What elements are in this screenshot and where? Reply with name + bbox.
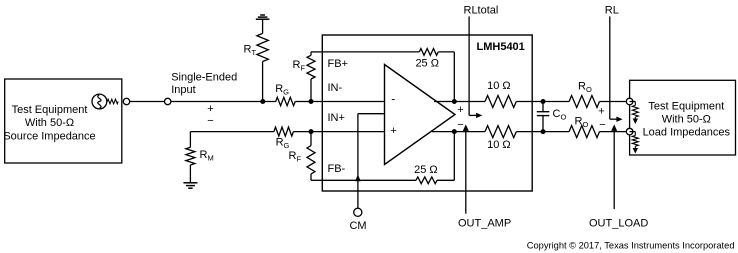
wire RF bottom stem [310, 132, 312, 146]
label 10-ohm bottom [487, 139, 511, 151]
pin label IN- [328, 82, 343, 94]
label 10-ohm top [487, 80, 511, 92]
connector J2 [165, 98, 171, 104]
resistor RG bottom [274, 127, 294, 136]
op-amp U1 (LMH5401 triangle) [385, 65, 456, 165]
svg-text:With 50-Ω: With 50-Ω [25, 117, 74, 129]
load equipment box [630, 80, 736, 155]
polarity + load [598, 105, 604, 117]
svg-text:10 Ω: 10 Ω [487, 139, 511, 151]
wire FB+ run right [438, 52, 454, 102]
wire FB- run left [322, 179, 416, 181]
wire RG2 to RF2 junction [293, 131, 311, 133]
svg-text:LMH5401: LMH5401 [477, 41, 525, 53]
wire IN+ into amp [311, 131, 385, 133]
svg-text:OUT_AMP: OUT_AMP [458, 217, 511, 229]
svg-text:FB+: FB+ [328, 58, 348, 70]
svg-text:25 Ω: 25 Ω [415, 58, 439, 70]
label OUT_LOAD [589, 217, 648, 229]
svg-text:RLtotal: RLtotal [464, 4, 499, 16]
label RG top [275, 83, 289, 97]
svg-text:+: + [457, 104, 463, 116]
label RF top [293, 59, 306, 73]
node CO bottom [541, 129, 546, 134]
svg-text:+: + [390, 125, 396, 137]
wire J2 to RT junction [171, 101, 275, 103]
label RO top [578, 80, 592, 94]
node CO top [541, 99, 546, 104]
pin label FB+ [328, 58, 348, 70]
node RF/IN- junction [309, 99, 314, 104]
pin label IN+ [328, 112, 345, 124]
wire out+ from amp [434, 101, 485, 103]
label RO bottom [575, 115, 589, 128]
wire J1-J2 [130, 101, 165, 103]
svg-text:With 50-Ω: With 50-Ω [662, 113, 711, 125]
node FB-/OUT- junction [452, 129, 457, 134]
polarity + input [207, 103, 213, 115]
label CO [553, 108, 567, 122]
label 25-ohm bottom [414, 164, 438, 176]
load equipment label [643, 101, 731, 139]
resistor RF bottom [307, 146, 315, 174]
ground GND2 (top, inverted) [256, 15, 270, 19]
node RF/IN+ junction [309, 129, 314, 134]
svg-text:Test Equipment: Test Equipment [12, 104, 88, 116]
label Single-Ended Input [171, 72, 237, 97]
wire RM stem bottom [189, 165, 191, 183]
resistor 10-ohm bottom [485, 126, 516, 138]
RL arrowhead [616, 117, 622, 122]
capacitor CO [537, 102, 550, 132]
connector J3 [626, 98, 633, 105]
wire RT stem bottom [262, 62, 264, 102]
resistor RO top [569, 96, 599, 108]
wire OUT_AMP [465, 131, 467, 214]
wire RT stem top [262, 19, 264, 33]
svg-text:IN-: IN- [328, 82, 343, 94]
svg-text:Input: Input [171, 84, 195, 96]
resistor RT [257, 33, 268, 61]
connector J1 [123, 98, 129, 104]
polarity - load [599, 119, 605, 131]
label RT [244, 44, 257, 58]
label RG bottom [276, 137, 290, 151]
OUT_AMP arrowhead [463, 124, 469, 130]
svg-text:−: − [207, 115, 213, 127]
CM terminal [354, 208, 362, 216]
wire RLtotal [469, 16, 477, 115]
op-amp out- mark [457, 119, 463, 131]
label RL [605, 4, 619, 16]
RLtotal arrowhead [476, 113, 482, 118]
wire CO to RO top [543, 101, 569, 103]
op-amp out+ mark [457, 104, 463, 116]
load ground arrow bottom [633, 148, 638, 154]
copyright notice [527, 241, 735, 251]
OUT_LOAD arrowhead [611, 124, 617, 130]
svg-text:+: + [598, 105, 604, 117]
svg-text:IN+: IN+ [328, 112, 345, 124]
label LMH5401 [477, 41, 525, 53]
load ground arrow top [633, 119, 638, 125]
label RLtotal [464, 4, 499, 16]
polarity - input [207, 115, 213, 127]
svg-text:25 Ω: 25 Ω [414, 164, 438, 176]
svg-text:FB-: FB- [328, 163, 346, 175]
resistor RG top [276, 97, 296, 105]
wire out- from amp [432, 131, 485, 133]
wire CM vertical [357, 114, 359, 209]
svg-text:Copyright © 2017, Texas Instru: Copyright © 2017, Texas Instruments Inco… [527, 241, 735, 251]
svg-text:10 Ω: 10 Ω [487, 80, 511, 92]
svg-text:Load Impedances: Load Impedances [643, 127, 731, 139]
wire out+ to CO [516, 101, 543, 103]
wire RO top to load [600, 101, 626, 103]
svg-text:RL: RL [605, 4, 619, 16]
resistor RF top [307, 55, 315, 79]
label RM [200, 149, 214, 163]
svg-text:+: + [207, 103, 213, 115]
AC source V1 [92, 94, 107, 109]
wire RM stem top [189, 132, 191, 148]
CM arrowhead [355, 175, 361, 182]
svg-text:CM: CM [349, 220, 366, 232]
svg-text:Source Impedance: Source Impedance [3, 130, 95, 142]
wire IN- into amp [311, 101, 385, 103]
resistor 25-ohm top [419, 49, 438, 56]
label OUT_AMP [458, 217, 511, 229]
wire FB+ run left [322, 51, 419, 53]
source equipment label [3, 104, 95, 142]
label CM [349, 220, 366, 232]
wire minus input [190, 131, 274, 133]
wire CM to amp [358, 113, 385, 115]
svg-text:−: − [599, 119, 605, 131]
wire OUT_LOAD [613, 131, 615, 210]
resistor RO bottom [569, 126, 599, 138]
svg-text:−: − [457, 119, 463, 131]
resistor 25-ohm bottom [416, 177, 437, 184]
label 25-ohm top [415, 58, 439, 70]
label RF bottom [289, 150, 302, 164]
wire out- to CO [516, 131, 543, 133]
wire RO bottom to load [600, 131, 626, 133]
load resistor top [630, 102, 639, 120]
node RT/IN- junction [260, 99, 265, 104]
resistor 10-ohm top [485, 96, 516, 108]
wire RF top to FB+ pin [311, 52, 322, 55]
LMH5401 package box [322, 35, 532, 191]
node FB+/OUT+ junction [452, 99, 457, 104]
load resistor bottom [630, 132, 639, 149]
ground GND1 [183, 183, 197, 188]
wire RL [610, 16, 618, 119]
op-amp + input mark [390, 125, 396, 137]
connector J4 [626, 128, 633, 135]
source equipment box [5, 79, 122, 163]
op-amp - input mark [391, 91, 395, 105]
wire RF bottom to FB- pin [311, 174, 322, 180]
wire RG to RF junction [295, 101, 311, 103]
wire CO to RO bottom [543, 131, 569, 133]
source 50-ohm resistor [107, 99, 118, 104]
pin label FB- [328, 163, 346, 175]
svg-text:OUT_LOAD: OUT_LOAD [589, 217, 648, 229]
resistor RM [186, 147, 195, 165]
svg-text:Single-Ended: Single-Ended [171, 72, 237, 84]
wire FB- run right [437, 132, 454, 181]
svg-text:-: - [391, 91, 395, 105]
wire RF top stem [310, 79, 312, 102]
svg-text:Test Equipment: Test Equipment [648, 101, 724, 113]
